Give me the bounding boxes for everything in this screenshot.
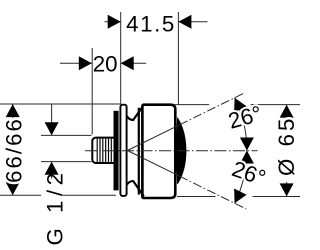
dimension 41.5 top — [105, 11, 208, 36]
spray angle line lower dash-dot — [179, 176, 246, 209]
spray angle line upper dash-dot — [179, 93, 245, 125]
wire extension line pipe top — [41, 134, 92, 136]
svg-text:20: 20 — [93, 52, 118, 77]
wire horizontal reference line bottom-left 66/66 datum — [0, 194, 116, 196]
collar cone outline top — [127, 106, 143, 120]
rear flange black bar — [114, 111, 119, 191]
svg-text:26°: 26° — [229, 156, 269, 191]
centerline axis dash-dot — [85, 150, 258, 152]
wire vertical extension line pipe end — [91, 48, 93, 135]
svg-text:41.5: 41.5 — [126, 11, 176, 36]
wire horizontal extension line top-right left segment — [174, 104, 209, 106]
wire vertical extension line wall plate — [120, 12, 122, 104]
threaded pipe G1/2 — [92, 138, 116, 163]
wire horizontal extension line top-right right segment — [251, 104, 300, 106]
thread hatch lines — [97, 139, 111, 163]
spray face lens — [176, 118, 186, 185]
wire horizontal extension line bottom-right left segment — [177, 196, 216, 198]
cone base seam line 2 — [141, 106, 143, 196]
svg-text:66/66: 66/66 — [2, 117, 27, 183]
angle dimension lower 26deg — [229, 151, 269, 204]
dimension G 1/2 thread — [43, 104, 68, 245]
head body — [142, 105, 175, 198]
spray angle line lower solid — [127, 151, 179, 177]
svg-text:G 1/2: G 1/2 — [43, 168, 68, 245]
spray angle line upper solid — [127, 125, 179, 151]
wire extension line pipe bottom — [41, 161, 92, 163]
collar cone outline bottom — [127, 181, 144, 196]
wire horizontal extension line bottom-right right segment — [253, 196, 301, 198]
cone base seam line 1 — [138, 108, 140, 195]
svg-text:26°: 26° — [226, 101, 265, 134]
wall plate edge-on — [120, 105, 126, 196]
dimension 66/66 left — [2, 104, 27, 195]
dimension diameter 65 right — [274, 105, 299, 197]
wire vertical extension line spray face — [177, 12, 179, 104]
dimension 20 — [60, 52, 146, 77]
wire horizontal reference line top-left 66/66 datum — [0, 103, 121, 105]
svg-text:Ø 65: Ø 65 — [274, 116, 299, 176]
angle dimension upper 26deg — [226, 98, 265, 151]
